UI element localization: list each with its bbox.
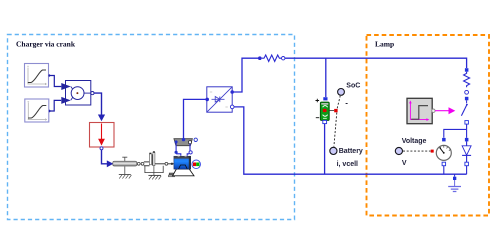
- svg-text:i, vcell: i, vcell: [337, 161, 358, 168]
- wire terminal legs right: [189, 144, 191, 151]
- pin DCDC minus out: [230, 105, 234, 109]
- pin lamp resistor top: [465, 68, 469, 72]
- pin machine top right open: [194, 138, 197, 141]
- wire product to torque source: [94, 93, 102, 115]
- pin brake flange a: [141, 162, 144, 165]
- converter block DCDC U1: [207, 87, 232, 112]
- wire bottom bus: [234, 107, 467, 174]
- svg-text:Charger via crank: Charger via crank: [16, 40, 76, 49]
- math block product P1: [61, 81, 91, 106]
- resistor R2 lamp (vertical zigzag): [464, 72, 470, 88]
- meter voltmeter V1: [436, 145, 451, 160]
- pin shaft flange: [137, 162, 140, 165]
- wire switch to junction: [444, 129, 467, 137]
- pin DCDC plus out: [230, 90, 234, 94]
- wire top bus to lamp: [285, 58, 467, 68]
- source block ramp2: [25, 99, 49, 122]
- component DC machine M1: [168, 156, 194, 177]
- sensor output SoC: [337, 96, 340, 108]
- pin brake flange b: [165, 162, 168, 165]
- pin voltmeter top: [442, 138, 446, 142]
- switch S1: [461, 97, 468, 130]
- resistor R1 (zigzag): [262, 55, 282, 61]
- pin torque output: [100, 147, 103, 150]
- source block ramp1: [25, 64, 49, 88]
- wire battery branch top: [325, 58, 327, 97]
- wire DCDC plus to resistor: [234, 58, 259, 92]
- pin machine plug circle (red green): [192, 160, 201, 169]
- pin resistor switch open: [465, 90, 469, 94]
- svg-text:SoC: SoC: [346, 82, 360, 89]
- pin product output: [91, 92, 94, 95]
- frame: Charger via crank dashed box: [8, 35, 295, 220]
- wire terminal box to DCDC: [184, 99, 207, 138]
- svg-text:Lamp: Lamp: [375, 40, 394, 49]
- svg-text:Voltage: Voltage: [402, 138, 427, 145]
- component brake B1: [144, 151, 165, 175]
- sensor output V: [395, 147, 402, 154]
- sensor connector red: [431, 150, 434, 153]
- svg-text:V: V: [402, 160, 407, 167]
- battery cell BT1: [316, 97, 338, 123]
- ground support of brake: [148, 175, 161, 179]
- frame: Lamp dashed box: [367, 35, 490, 216]
- wire battery bottom to bus: [324, 124, 326, 175]
- pin resistor right: [282, 57, 285, 60]
- ground support of shaft: [119, 166, 132, 178]
- block boolean step: [407, 98, 432, 123]
- pin voltmeter bottom: [442, 162, 446, 166]
- pin DCDC dc in: [205, 98, 209, 102]
- component shaft bearing (gray cylinder): [113, 157, 137, 166]
- svg-text:Battery: Battery: [339, 148, 363, 155]
- wire terminal legs left: [175, 143, 177, 151]
- junction dot resistor left: [258, 56, 262, 60]
- wire dashed voltage signal: [403, 150, 431, 152]
- pin boolean step output: [432, 109, 435, 112]
- wire boolean signal to switch: [435, 110, 449, 112]
- wire ramp2 output: [49, 100, 61, 111]
- source block torque T1 (red): [90, 123, 115, 148]
- wire torque to shaft: [102, 150, 108, 164]
- component terminal box: [174, 138, 193, 146]
- wire voltmeter to bus: [443, 166, 445, 175]
- ground G1 lamp: [448, 174, 461, 191]
- wire flange to machine: [168, 163, 175, 165]
- sensor output Battery: [334, 113, 337, 147]
- wire ramp1 output: [49, 76, 62, 87]
- diode D1: [462, 129, 471, 174]
